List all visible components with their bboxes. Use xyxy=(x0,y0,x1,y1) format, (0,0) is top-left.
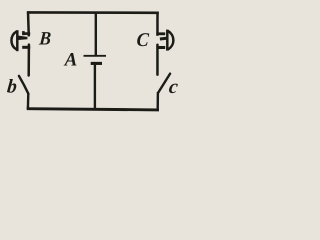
receiver C bottom arm xyxy=(157,46,166,49)
wire: top horizontal xyxy=(27,11,159,14)
receiver B bottom arm xyxy=(22,46,30,49)
receiver B top arm xyxy=(22,32,30,35)
receiver C earpiece arc xyxy=(168,31,173,49)
receiver B middle tongue xyxy=(18,36,27,40)
receiver C middle tongue xyxy=(160,37,167,41)
battery A long plate xyxy=(84,55,107,57)
svg-text:C: C xyxy=(136,29,150,51)
wire: left side upper (top corner down to receiver B) xyxy=(27,11,30,36)
paper background xyxy=(0,0,200,121)
wire: bottom horizontal xyxy=(27,109,159,110)
wire: middle branch upper (top wire down to battery A) xyxy=(95,12,97,56)
wire: right side middle (receiver C down to switch c contact) xyxy=(156,45,159,75)
wire: right side lower (bottom corner up to switch c lever) xyxy=(156,92,159,109)
wire: left side middle (receiver B down to switch b contact) xyxy=(27,45,30,76)
receiver C diaphragm bar xyxy=(166,30,169,51)
wire: right side upper (top corner down to receiver C) xyxy=(156,12,159,36)
battery A short thick plate xyxy=(91,62,102,65)
wire: middle branch lower (battery A down to bottom wire) xyxy=(94,65,96,109)
receiver B earpiece arc xyxy=(11,31,16,49)
switch c lever xyxy=(158,74,170,93)
svg-text:B: B xyxy=(38,28,52,49)
receiver C top arm xyxy=(157,32,166,35)
receiver B connector stub xyxy=(22,31,25,35)
wire: left side lower (lever to bottom corner) xyxy=(27,93,30,109)
receiver B diaphragm bar xyxy=(16,30,19,51)
svg-text:A: A xyxy=(64,50,78,71)
switch b lever xyxy=(19,76,29,94)
